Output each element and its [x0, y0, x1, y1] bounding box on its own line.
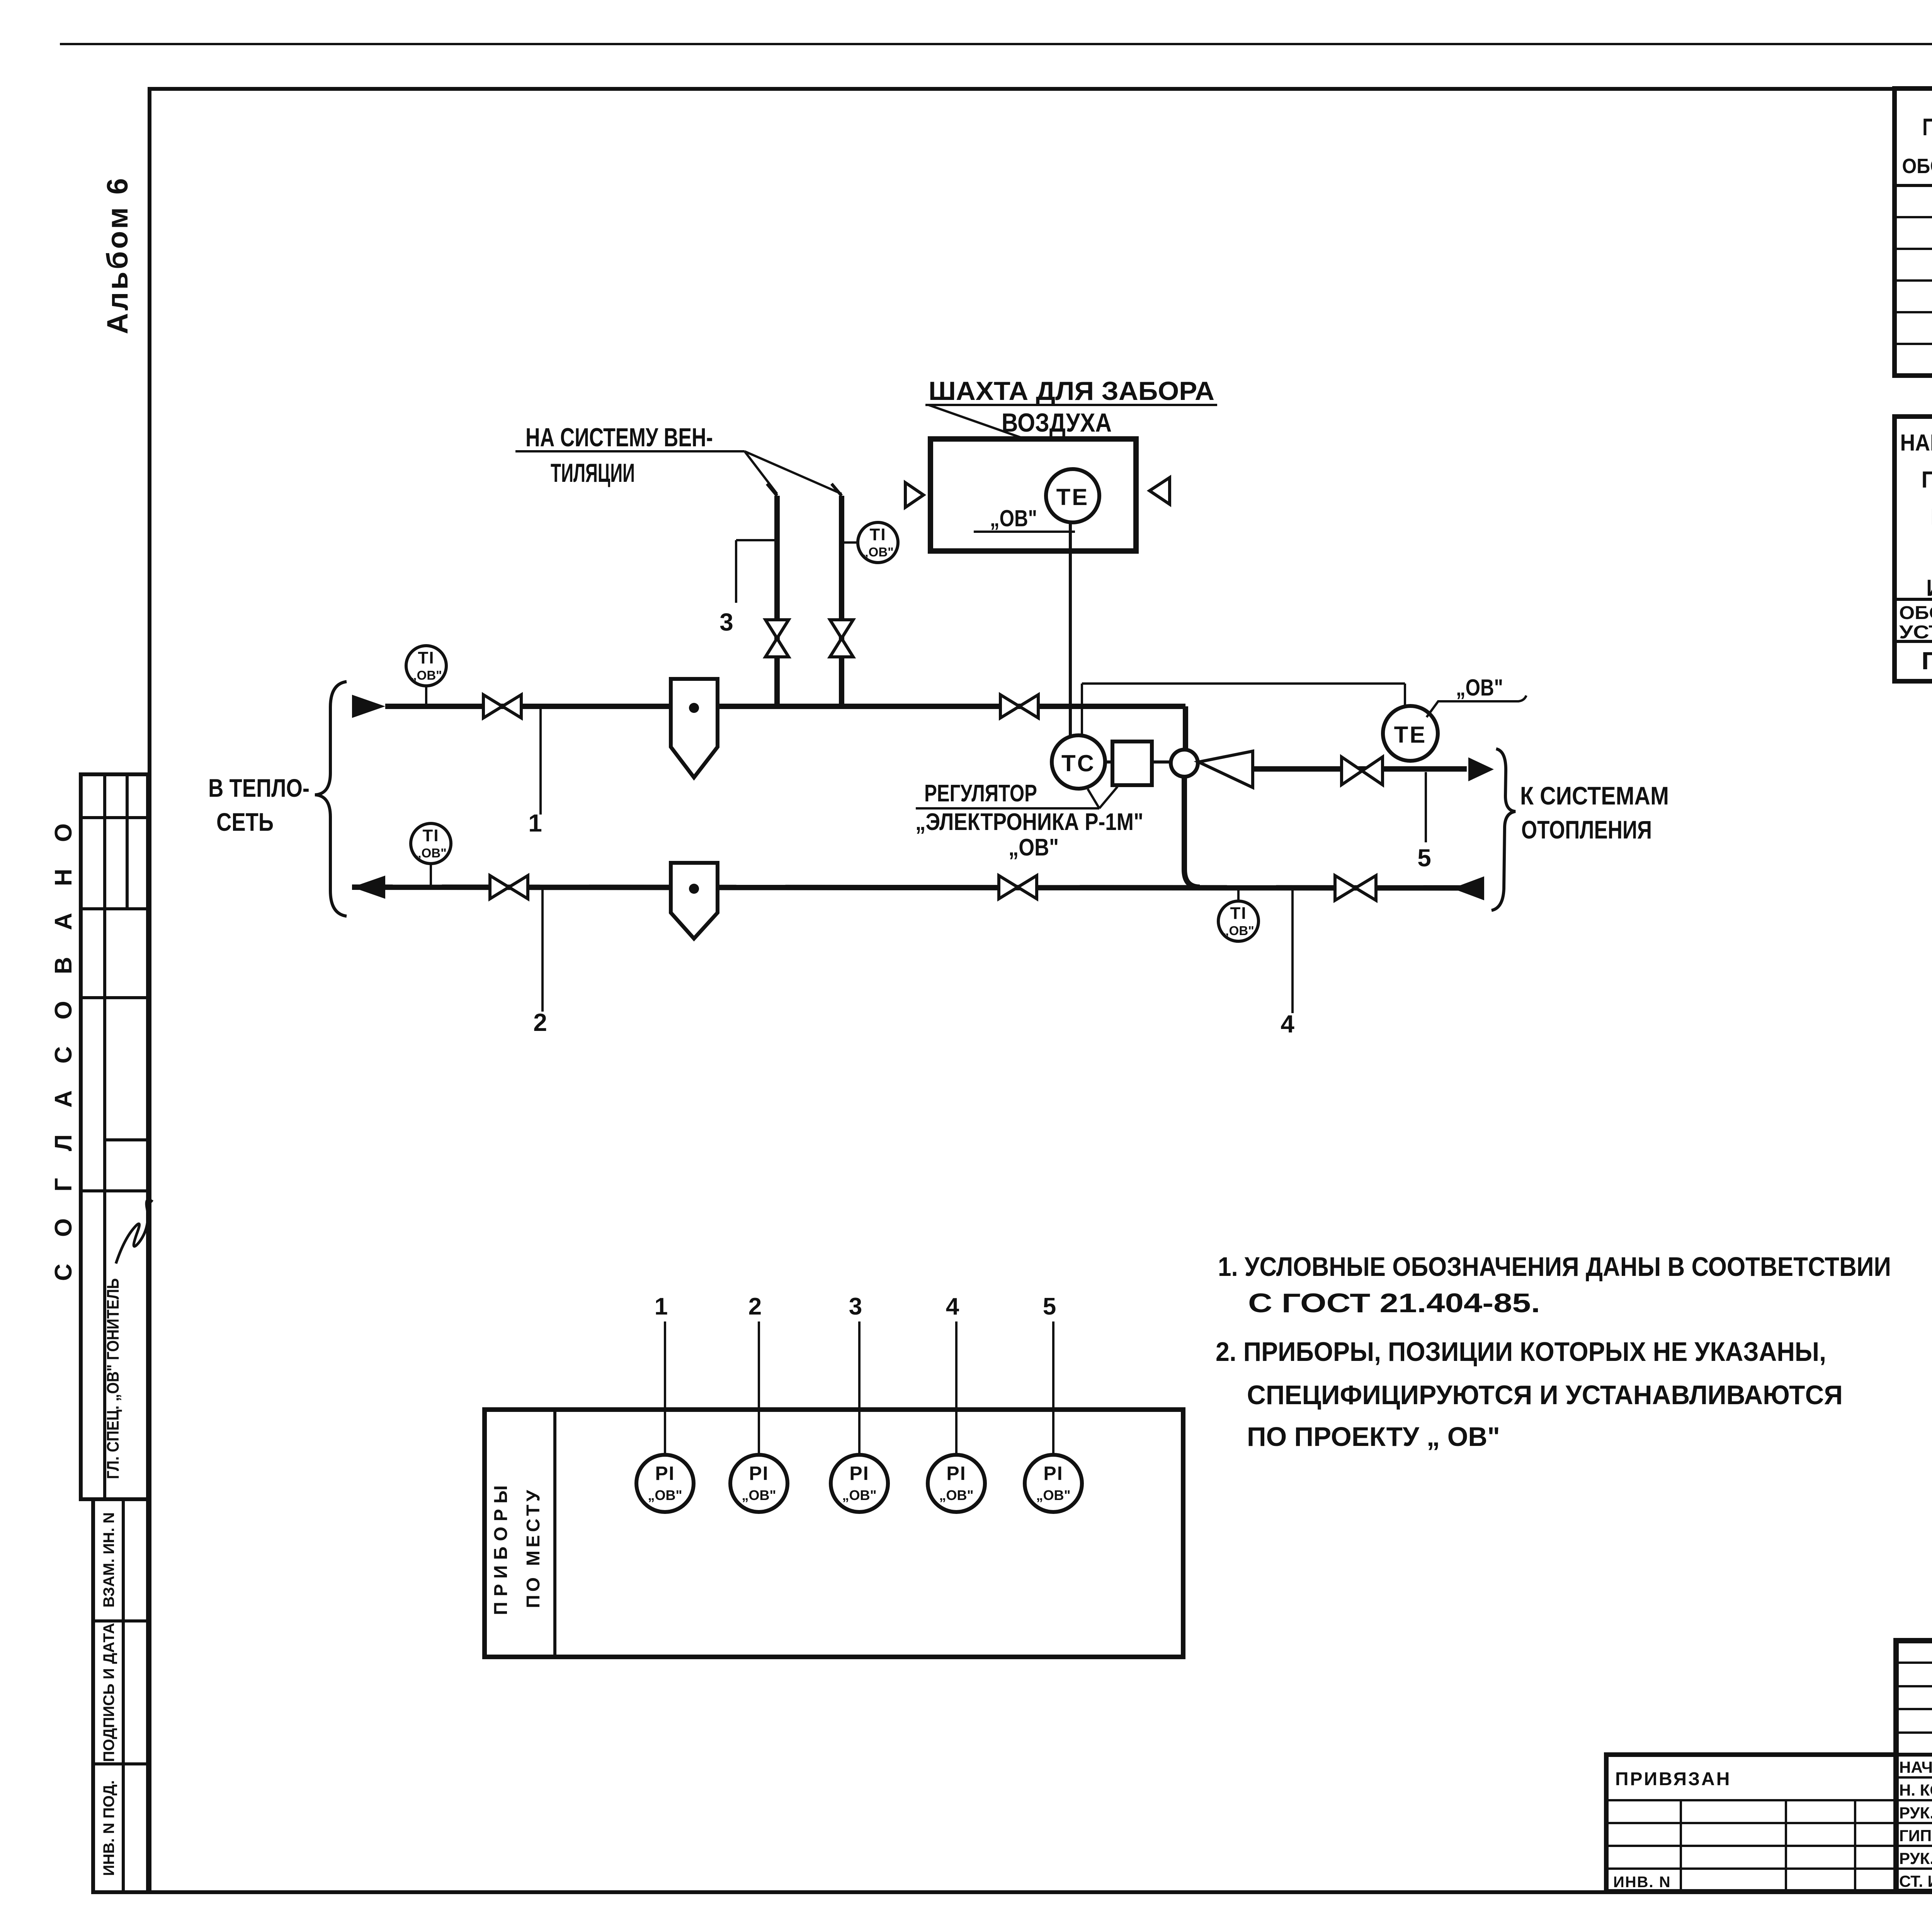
svg-text:PI: PI: [655, 1463, 675, 1484]
svg-text:К СИСТЕМАМ: К СИСТЕМАМ: [1520, 781, 1669, 810]
svg-text:И МЕСТО: И МЕСТО: [1930, 504, 1932, 530]
svg-text:Н. КОНТР.: Н. КОНТР.: [1899, 1781, 1932, 1799]
svg-text:ТИЛЯЦИИ: ТИЛЯЦИИ: [551, 458, 635, 488]
svg-text:ИНВ. N: ИНВ. N: [1613, 1874, 1671, 1891]
svg-text:TI: TI: [1230, 904, 1247, 923]
svg-text:„ОВ": „ОВ": [1036, 1487, 1070, 1503]
svg-text:PI: PI: [1043, 1463, 1063, 1484]
svg-text:В ТЕПЛО-: В ТЕПЛО-: [208, 774, 310, 802]
svg-text:ПОЗИЦИЯ: ПОЗИЦИЯ: [1922, 647, 1932, 675]
svg-text:3: 3: [719, 608, 733, 636]
svg-text:2: 2: [533, 1009, 547, 1036]
svg-text:TI: TI: [422, 826, 439, 845]
svg-text:TI: TI: [869, 525, 886, 544]
svg-text:„ЭЛЕКТРОНИКА Р-1М": „ЭЛЕКТРОНИКА Р-1М": [915, 809, 1143, 835]
svg-text:5: 5: [1043, 1293, 1056, 1320]
svg-text:1. УСЛОВНЫЕ ОБОЗНАЧЕНИЯ ДА: 1. УСЛОВНЫЕ ОБОЗНАЧЕНИЯ ДАНЫ В СООТВЕТСТ…: [1218, 1252, 1891, 1282]
svg-text:„ОВ": „ОВ": [410, 668, 442, 682]
svg-text:„ОВ": „ОВ": [939, 1487, 973, 1503]
svg-text:4: 4: [1281, 1010, 1294, 1038]
svg-text:ТЕ: ТЕ: [1056, 484, 1089, 510]
svg-text:НАИМЕНОВАНИЕ: НАИМЕНОВАНИЕ: [1900, 430, 1932, 456]
svg-text:ИМПУЛЬСА: ИМПУЛЬСА: [1926, 575, 1932, 601]
svg-text:ОТОПЛЕНИЯ: ОТОПЛЕНИЯ: [1521, 815, 1652, 844]
svg-text:ГЛ. СПЕЦ. „ОВ" ГОНИТЕЛЬ: ГЛ. СПЕЦ. „ОВ" ГОНИТЕЛЬ: [104, 1278, 122, 1479]
svg-text:TI: TI: [418, 648, 434, 667]
svg-text:„ОВ": „ОВ": [990, 505, 1037, 531]
svg-text:„ОВ": „ОВ": [1009, 834, 1059, 861]
svg-text:СЕТЬ: СЕТЬ: [216, 808, 274, 836]
svg-text:РЕГУЛЯТОР: РЕГУЛЯТОР: [924, 780, 1037, 807]
svg-text:ПО ПРОЕКТУ „ ОВ": ПО ПРОЕКТУ „ ОВ": [1247, 1422, 1500, 1452]
svg-text:НА СИСТЕМУ ВЕН-: НА СИСТЕМУ ВЕН-: [526, 423, 713, 452]
svg-text:Позиц: Позиц: [1922, 114, 1932, 141]
svg-text:4: 4: [946, 1293, 959, 1320]
svg-text:ГИП: ГИП: [1899, 1827, 1932, 1845]
svg-text:„ОВ": „ОВ": [648, 1487, 682, 1503]
svg-text:ИНВ. N ПОД.: ИНВ. N ПОД.: [100, 1780, 117, 1876]
svg-text:ОБОЗНАЧ.: ОБОЗНАЧ.: [1902, 155, 1932, 178]
svg-text:2. ПРИБОРЫ, ПОЗИЦИИ КОТОРЫХ: 2. ПРИБОРЫ, ПОЗИЦИИ КОТОРЫХ НЕ УКАЗАНЫ,: [1216, 1337, 1826, 1367]
svg-text:PI: PI: [749, 1463, 769, 1484]
svg-text:2: 2: [748, 1293, 762, 1320]
svg-text:ПРИБОРЫ: ПРИБОРЫ: [491, 1480, 511, 1615]
svg-text:„ОВ": „ОВ": [842, 1487, 876, 1503]
svg-text:ПОДПИСЬ И ДАТА: ПОДПИСЬ И ДАТА: [100, 1623, 117, 1762]
svg-text:„ОВ": „ОВ": [1456, 675, 1503, 701]
svg-text:„ОВ": „ОВ": [415, 846, 447, 860]
svg-text:ТЕ: ТЕ: [1394, 722, 1427, 748]
svg-text:„ОВ": „ОВ": [1223, 923, 1254, 938]
svg-text:С ГОСТ 21.404-85.: С ГОСТ 21.404-85.: [1248, 1288, 1540, 1318]
svg-text:ТС: ТС: [1061, 750, 1095, 776]
svg-text:РУК. СЕК.: РУК. СЕК.: [1899, 1804, 1932, 1822]
svg-text:ОБОЗНАЧ. ЧЕРТ.: ОБОЗНАЧ. ЧЕРТ.: [1899, 603, 1932, 623]
svg-text:3: 3: [849, 1293, 862, 1320]
svg-text:ШАХТА ДЛЯ ЗАБОРА: ШАХТА ДЛЯ ЗАБОРА: [929, 376, 1214, 406]
svg-text:СПЕЦИФИЦИРУЮТСЯ И УСТАНА: СПЕЦИФИЦИРУЮТСЯ И УСТАНАВЛИВАЮТСЯ: [1247, 1380, 1843, 1410]
svg-text:„ОВ": „ОВ": [862, 545, 894, 559]
svg-text:СТ. ИНЖ.: СТ. ИНЖ.: [1899, 1872, 1932, 1890]
svg-text:ПО МЕСТУ: ПО МЕСТУ: [523, 1487, 544, 1608]
svg-text:УСТАНОВКИ: УСТАНОВКИ: [1899, 622, 1932, 643]
svg-text:1: 1: [655, 1293, 668, 1320]
svg-text:РУК. ГР.: РУК. ГР.: [1899, 1849, 1932, 1867]
svg-text:5: 5: [1417, 844, 1431, 872]
svg-text:НАЧ. ОТД.: НАЧ. ОТД.: [1899, 1758, 1932, 1776]
svg-text:„ОВ": „ОВ": [742, 1487, 776, 1503]
svg-text:PI: PI: [849, 1463, 869, 1484]
svg-text:С О Г Л А С О В А Н О: С О Г Л А С О В А Н О: [50, 813, 77, 1281]
svg-text:Альбом 6: Альбом 6: [101, 176, 134, 334]
svg-text:ПРИВЯЗАН: ПРИВЯЗАН: [1615, 1769, 1731, 1789]
svg-text:ВОЗДУХА: ВОЗДУХА: [1002, 408, 1112, 437]
svg-text:PI: PI: [946, 1463, 966, 1484]
svg-text:ВЗАМ. ИН. N: ВЗАМ. ИН. N: [100, 1512, 117, 1608]
svg-text:ПАРАМЕТРА: ПАРАМЕТРА: [1922, 467, 1932, 493]
